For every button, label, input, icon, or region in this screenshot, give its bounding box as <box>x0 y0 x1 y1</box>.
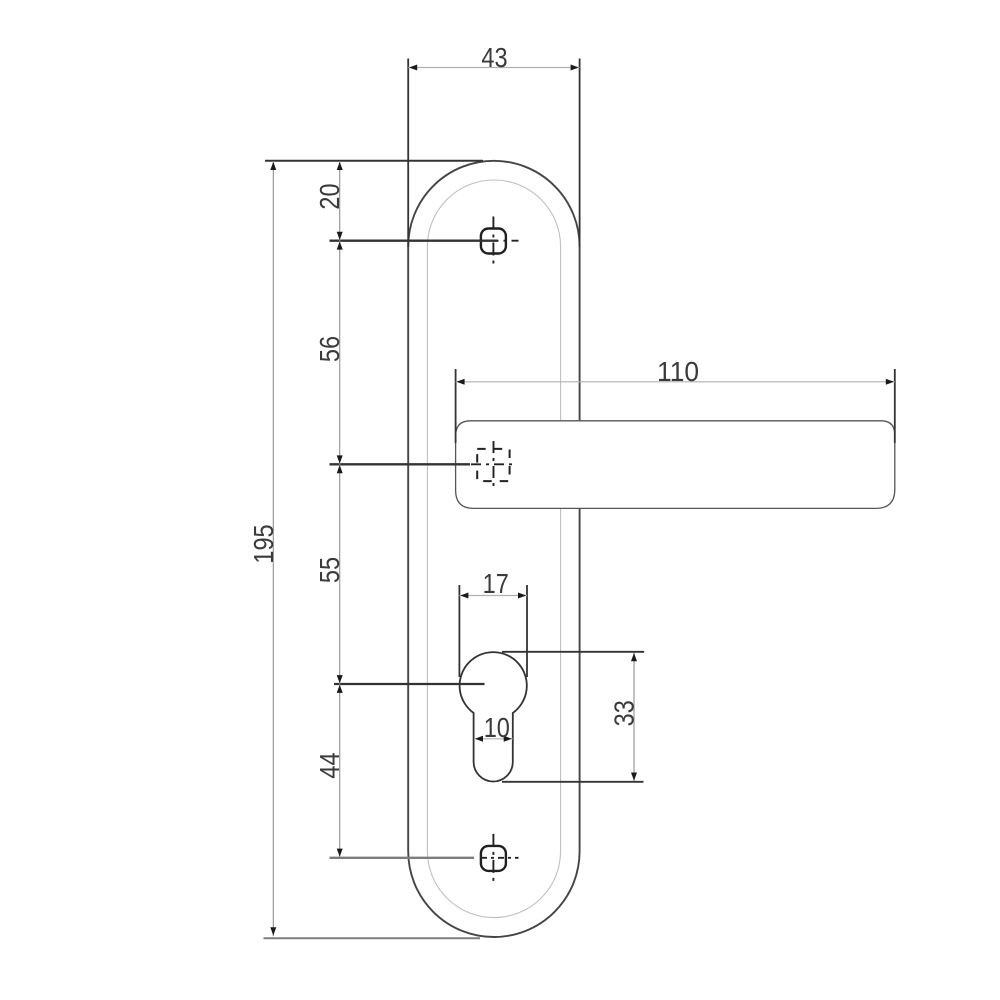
feature line: bottom screw centerline <box>330 857 475 859</box>
svg-text:43: 43 <box>481 43 507 73</box>
feature line: keyhole centerline <box>334 683 485 685</box>
feature line: top screw centerline <box>330 239 498 241</box>
top screw crosshair <box>492 217 519 266</box>
cylinder keyhole <box>460 652 527 781</box>
extension line 33 top <box>502 651 644 653</box>
svg-text:110: 110 <box>657 357 699 387</box>
svg-text:56: 56 <box>315 336 345 362</box>
svg-text:10: 10 <box>484 713 510 743</box>
feature line: handle centerline <box>330 463 471 465</box>
chain dimension line <box>337 161 343 857</box>
dimension 33 line <box>631 653 637 782</box>
extension line 17 right <box>526 585 528 677</box>
bottom screw crosshair <box>481 834 519 883</box>
feature line: plate top <box>265 160 483 162</box>
extension line 110 left <box>455 369 457 443</box>
top screw hole <box>481 229 506 254</box>
dimension 110 line <box>456 379 895 385</box>
dimension 17 line <box>459 593 527 599</box>
svg-text:17: 17 <box>483 569 509 599</box>
spindle square (dashed) <box>477 449 509 481</box>
svg-text:55: 55 <box>315 557 345 583</box>
dimension 195 line <box>270 161 276 936</box>
feature line: plate bottom <box>264 937 481 939</box>
plate inner outline <box>427 180 560 918</box>
svg-text:44: 44 <box>315 752 345 778</box>
extension line 43 right <box>579 59 581 248</box>
plate outer outline <box>408 161 579 937</box>
svg-text:195: 195 <box>249 524 279 563</box>
spindle crosshair <box>471 441 517 490</box>
dimension 10 line <box>474 736 513 742</box>
dimension 43 line <box>408 65 579 71</box>
svg-text:20: 20 <box>315 183 345 209</box>
extension line 43 left <box>407 59 409 248</box>
svg-text:33: 33 <box>609 700 639 726</box>
extension line 17 left <box>458 585 460 677</box>
bottom screw hole <box>481 846 506 871</box>
extension line 110 right <box>894 369 896 443</box>
handle lever <box>456 421 895 509</box>
extension line 33 bottom <box>502 781 644 783</box>
